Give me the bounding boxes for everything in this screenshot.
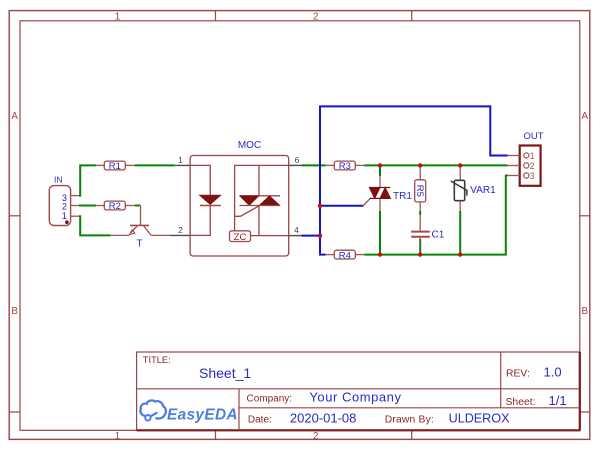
OUT pin O1 <box>508 155 520 157</box>
svg-text:T: T <box>136 239 142 250</box>
resistor R5 <box>414 165 426 211</box>
svg-text:IN: IN <box>54 175 63 185</box>
varistor VAR1 <box>451 165 496 211</box>
svg-text:Drawn By:: Drawn By: <box>385 414 434 425</box>
transistor T <box>111 206 171 250</box>
MOC ZC to pin4 wire <box>251 235 289 237</box>
svg-text:R4: R4 <box>339 250 351 261</box>
svg-text:2: 2 <box>178 225 183 235</box>
svg-text:A: A <box>11 111 18 122</box>
wire IN pin2 to R2 <box>79 205 96 207</box>
node TR1 bottom <box>378 252 382 256</box>
MOC zero-cross box ZC <box>230 231 251 242</box>
svg-text:VAR1: VAR1 <box>470 185 496 196</box>
svg-text:R1: R1 <box>109 161 121 172</box>
wire blue bottom elbow to R4 <box>320 253 326 256</box>
svg-text:1: 1 <box>178 155 183 165</box>
title block logo divider <box>238 389 240 431</box>
wire MOC pin6 to R3 <box>302 164 326 166</box>
wire IN pin3 to R1 <box>79 165 96 195</box>
wire R3 to OUT O2 <box>364 164 507 166</box>
svg-text:MOC: MOC <box>238 140 261 151</box>
wire VAR1 to bottom rail <box>459 211 461 255</box>
frame tick top 2 <box>411 11 413 21</box>
node VAR1 bottom <box>458 252 462 256</box>
wire R4 bottom rail to OUT O3 <box>364 176 507 255</box>
OUT pin O2 <box>508 165 520 167</box>
svg-text:1: 1 <box>115 11 120 22</box>
wire IN pin1 to transistor emitter <box>79 216 111 235</box>
svg-text:Date:: Date: <box>248 414 272 425</box>
svg-text:R2: R2 <box>109 201 121 212</box>
capacitor C1 bottom pin <box>419 238 421 248</box>
svg-text:Sheet:: Sheet: <box>506 397 536 408</box>
wire blue gate branch to TR1 <box>320 205 363 207</box>
title block row line 2 <box>239 407 580 409</box>
connector OUT <box>508 131 544 186</box>
svg-text:C1: C1 <box>432 230 445 241</box>
node gate branch <box>318 204 322 208</box>
svg-text:1: 1 <box>115 431 120 442</box>
optocoupler MOC <box>170 140 302 256</box>
MOC internal gate line <box>235 206 259 216</box>
svg-text:2020-01-08: 2020-01-08 <box>290 410 357 425</box>
svg-text:B: B <box>582 306 589 317</box>
svg-text:ULDEROX: ULDEROX <box>449 411 510 425</box>
MOC pin 6 <box>289 164 302 166</box>
svg-text:2: 2 <box>530 161 535 171</box>
resistor R2 <box>96 201 135 212</box>
triac TR1 <box>363 165 412 254</box>
svg-text:4: 4 <box>294 225 299 235</box>
wire C1 to bottom rail <box>419 239 421 255</box>
frame tick left B-bottom <box>9 411 20 413</box>
svg-text:1/1: 1/1 <box>549 393 567 408</box>
MOC internal LED <box>190 165 210 195</box>
resistor R1 <box>96 161 135 172</box>
frame tick bottom 1 <box>215 430 217 439</box>
wire R2 to transistor base <box>135 205 141 207</box>
wire blue main vertical and top run to OUT O1 <box>320 106 508 253</box>
node VAR1 top <box>458 163 462 167</box>
svg-text:1: 1 <box>62 211 67 221</box>
wire R1 to MOC pin1 <box>135 164 175 166</box>
svg-text:Your Company: Your Company <box>309 389 401 404</box>
OUT pin O3 <box>508 175 520 177</box>
svg-text:OUT: OUT <box>524 131 544 142</box>
resistor R4 <box>326 250 365 261</box>
frame tick right AB <box>580 215 590 217</box>
MOC pin 1 <box>174 164 190 166</box>
title block rev divider <box>500 352 502 408</box>
svg-text:EasyEDA: EasyEDA <box>167 406 238 423</box>
frame tick bottom 2 <box>411 430 413 439</box>
MOC internal triac top rail wire <box>235 165 289 230</box>
frame tick top 1 <box>215 11 217 21</box>
svg-text:R3: R3 <box>339 161 351 172</box>
node TR1 top <box>378 163 382 167</box>
MOC pin 2 <box>170 234 190 236</box>
svg-text:B: B <box>11 306 18 317</box>
svg-text:2: 2 <box>313 431 318 442</box>
svg-text:3: 3 <box>530 171 535 181</box>
svg-text:A: A <box>582 111 589 122</box>
svg-text:Company:: Company: <box>247 393 293 404</box>
svg-text:TR1: TR1 <box>393 191 412 202</box>
node R5 top <box>418 163 422 167</box>
title block row line 1 <box>137 388 580 390</box>
wire blue MOC pin4 to net <box>302 235 321 237</box>
svg-text:REV:: REV: <box>506 368 530 379</box>
wire R5 to C1 <box>419 211 421 215</box>
svg-text:R5: R5 <box>414 185 425 197</box>
svg-text:1.0: 1.0 <box>544 364 562 379</box>
frame tick right B-bottom <box>580 411 590 413</box>
resistor R3 <box>326 161 365 172</box>
svg-text:1: 1 <box>530 151 535 161</box>
connector IN <box>49 175 79 226</box>
frame tick left AB <box>9 215 20 217</box>
MOC internal triac <box>258 165 260 195</box>
node C1 bottom <box>418 252 422 256</box>
capacitor C1 <box>411 215 445 241</box>
svg-text:2: 2 <box>313 11 318 22</box>
title block outline <box>137 352 581 430</box>
node MOC pin4 <box>318 233 322 237</box>
svg-text:6: 6 <box>295 155 300 165</box>
MOC pin 4 <box>289 235 302 237</box>
EasyEDA logo icon <box>140 400 166 420</box>
svg-text:Sheet_1: Sheet_1 <box>199 365 251 381</box>
svg-text:ZC: ZC <box>234 232 247 243</box>
svg-text:TITLE:: TITLE: <box>143 355 171 365</box>
